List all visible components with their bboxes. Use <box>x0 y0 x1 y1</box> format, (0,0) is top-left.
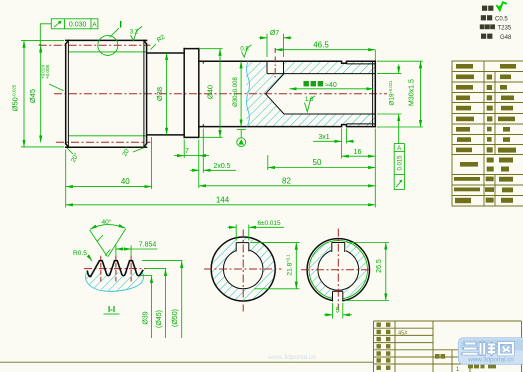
svg-text:3x1: 3x1 <box>318 134 329 141</box>
svg-text:C0.5: C0.5 <box>495 16 508 22</box>
dim dia50 <box>11 41 65 147</box>
svg-text:1: 1 <box>456 367 460 372</box>
dim 7 flange width <box>174 140 209 159</box>
svg-text:40°: 40° <box>102 218 112 226</box>
char san <box>463 343 514 355</box>
dim 26.5 <box>345 243 389 301</box>
dim 40deg angle <box>90 218 126 257</box>
svg-text:Ø7: Ø7 <box>270 30 279 37</box>
svg-text:7.854: 7.854 <box>139 242 157 249</box>
svg-text:I: I <box>119 20 122 31</box>
dim dia45 <box>28 46 41 143</box>
tooth pitch red line <box>84 268 146 270</box>
tolerance note leader <box>41 64 64 90</box>
dim 50 <box>268 155 375 170</box>
svg-text:50: 50 <box>313 158 322 167</box>
tooth centerlines red <box>100 256 102 282</box>
dim 3x1 groove <box>313 129 353 159</box>
dim M30x1.5 <box>377 61 423 127</box>
external thread minor lines <box>347 63 376 65</box>
title block texts <box>377 323 497 372</box>
runout tolerance frame 0.030/A <box>39 19 98 46</box>
svg-text:7: 7 <box>185 148 189 155</box>
svg-text:R0.5: R0.5 <box>73 250 87 257</box>
dim 16 <box>342 149 375 156</box>
chamfer 20deg label right <box>120 145 144 158</box>
bore dia19 lines <box>267 73 375 75</box>
svg-text:46.5: 46.5 <box>313 40 329 49</box>
fillet R2 label <box>151 33 167 49</box>
title block <box>374 321 522 372</box>
dia7 hole centerline red <box>274 57 276 79</box>
svg-text:(Ø45): (Ø45) <box>156 310 163 328</box>
svg-text:A: A <box>397 146 401 152</box>
svg-text:20°: 20° <box>69 151 81 164</box>
dim dia40 flange <box>200 49 223 138</box>
dia7 radial hole walls <box>266 61 268 73</box>
worm chamfer edge lines <box>67 40 69 147</box>
detail circle I <box>98 20 122 56</box>
surface mark 0.8 <box>240 45 251 57</box>
svg-text:R2: R2 <box>156 33 167 44</box>
flange dia40 <box>184 49 199 138</box>
general roughness symbol green <box>497 2 507 10</box>
svg-text:0.015: 0.015 <box>398 155 404 171</box>
svg-text:+0.008: +0.008 <box>45 64 50 79</box>
parameter table <box>452 61 523 206</box>
dim 5 slot <box>324 303 352 319</box>
svg-text:I-I: I-I <box>108 305 115 314</box>
worm root lines (green thin) <box>68 51 146 53</box>
dim 144 overall <box>66 195 375 204</box>
svg-text:Ø40: Ø40 <box>206 85 215 99</box>
svg-text:Ø39: Ø39 <box>142 311 149 324</box>
svg-text:0.030: 0.030 <box>69 22 87 29</box>
svg-text:Ø38: Ø38 <box>155 87 164 101</box>
svg-text:6±0.015: 6±0.015 <box>257 220 280 227</box>
chamfer 20deg label left <box>67 148 81 164</box>
svg-text:Ø30±0.008: Ø30±0.008 <box>233 77 239 107</box>
runout frame 0.015/A rotated <box>394 123 404 189</box>
svg-text:www.3dportal.cn: www.3dportal.cn <box>267 354 316 361</box>
break squiggle local section <box>247 61 250 126</box>
svg-text:A: A <box>92 22 97 29</box>
svg-text:40: 40 <box>121 177 130 186</box>
svg-text:82: 82 <box>282 176 291 185</box>
svg-text:T235: T235 <box>498 26 512 32</box>
dia39 callout <box>140 276 152 338</box>
hatch section material right part <box>246 61 375 126</box>
dim dia7 <box>259 30 292 57</box>
svg-text:www.3dportal.cn: www.3dportal.cn <box>467 357 514 364</box>
svg-text:(Ø50): (Ø50) <box>172 309 179 327</box>
dim 2x0.5 <box>190 129 236 173</box>
watermark 3dportal <box>458 338 523 365</box>
parameter table text blobs <box>454 64 516 203</box>
svg-text:21.8+0.1: 21.8+0.1 <box>286 254 294 276</box>
SECTION B-B right circle <box>301 229 371 310</box>
dim dia19 bore <box>377 65 402 124</box>
svg-text:Ø45: Ø45 <box>28 89 37 103</box>
svg-text:45#: 45# <box>398 331 408 337</box>
svg-text:16: 16 <box>354 149 362 156</box>
dim 40 worm length <box>66 137 152 208</box>
worm cylinder outline <box>66 40 147 147</box>
dim dia38 <box>155 53 167 135</box>
neck dia38 <box>148 53 185 135</box>
R0.5 root radius label <box>73 250 92 261</box>
main axis centerline <box>54 93 387 95</box>
svg-text:≈40: ≈40 <box>325 82 337 89</box>
dim 46.5 <box>275 40 375 60</box>
thread profile outline <box>87 261 143 277</box>
hatched material blob <box>86 272 144 292</box>
dim 6+-0.015 keyway <box>228 220 285 241</box>
dim 21.8 keyway depth <box>251 243 300 289</box>
svg-text:5: 5 <box>336 307 340 314</box>
SECTION A-A left circle <box>204 230 282 312</box>
svg-text:M30x1.5: M30x1.5 <box>409 79 416 106</box>
dim dia30 journal <box>233 61 241 126</box>
svg-text:Ø50-0.025: Ø50-0.025 <box>11 84 20 111</box>
dim 82 <box>199 129 375 208</box>
surface mark 1.6 in bore <box>305 96 316 112</box>
dia50 callout <box>142 261 182 338</box>
worm pitch centerlines (red) <box>39 44 151 46</box>
general notes top right (text blobs) <box>480 6 512 41</box>
label I-I <box>104 305 120 314</box>
dim 7.854 pitch <box>116 242 158 256</box>
groove 2x0.5 ticks <box>202 61 204 63</box>
drill cone <box>266 74 285 114</box>
svg-text:G48: G48 <box>500 35 512 41</box>
end chamfer line <box>372 61 374 126</box>
surface mark 3.2 <box>130 27 142 41</box>
dia45 callout <box>146 269 166 338</box>
svg-text:144: 144 <box>216 195 230 204</box>
svg-text:Ø19+0.021: Ø19+0.021 <box>388 80 396 106</box>
sheet bottom border <box>0 361 374 363</box>
journal dia30 outline with thread relief notch <box>199 61 375 126</box>
datum A symbol <box>237 130 246 147</box>
svg-text:26.5: 26.5 <box>376 259 383 273</box>
svg-text:2x0.5: 2x0.5 <box>213 163 230 170</box>
depth note 40 (chinese chars as glyph blobs) <box>290 81 374 89</box>
